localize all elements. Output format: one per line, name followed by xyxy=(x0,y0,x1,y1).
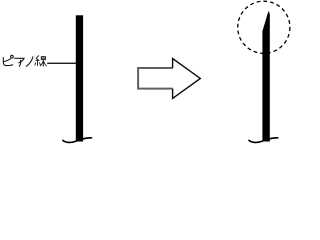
glyph 線 xyxy=(35,56,46,66)
glyph ア xyxy=(15,58,25,63)
wavy break line under right wire xyxy=(249,138,278,143)
right piano wire sharpened to a point xyxy=(262,11,269,142)
wavy break line under left wire xyxy=(63,138,92,143)
glyph ノ xyxy=(26,57,33,67)
left piano wire (blunt bar) xyxy=(76,15,83,141)
leader line from label to wire xyxy=(47,62,76,64)
hollow block arrow xyxy=(138,68,173,89)
label "ピアノ線" (piano wire), drawn as strokes xyxy=(3,55,33,66)
glyph ピ xyxy=(3,58,12,66)
dashed circle highlighting sharpened tip xyxy=(238,1,290,53)
